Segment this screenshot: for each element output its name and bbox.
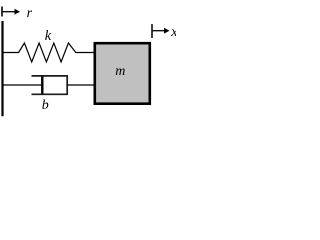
damper rod right <box>67 84 95 86</box>
wall <box>1 21 3 116</box>
svg-text:r: r <box>27 6 33 21</box>
damper cylinder (open left) <box>32 76 68 94</box>
x-arrow tick <box>151 24 153 38</box>
x-arrow shaft <box>152 30 165 32</box>
svg-text:b: b <box>42 98 49 113</box>
mass block <box>95 43 150 103</box>
svg-text:m: m <box>115 64 125 79</box>
spring k <box>4 43 95 62</box>
svg-text:k: k <box>45 28 52 44</box>
svg-text:x: x <box>170 25 176 40</box>
r-arrow shaft <box>2 11 16 13</box>
damper rod left <box>4 84 44 86</box>
damper piston plate <box>41 77 43 95</box>
x-arrow head <box>164 28 170 34</box>
r-arrow head <box>15 9 21 15</box>
r-arrow tick <box>1 7 3 17</box>
